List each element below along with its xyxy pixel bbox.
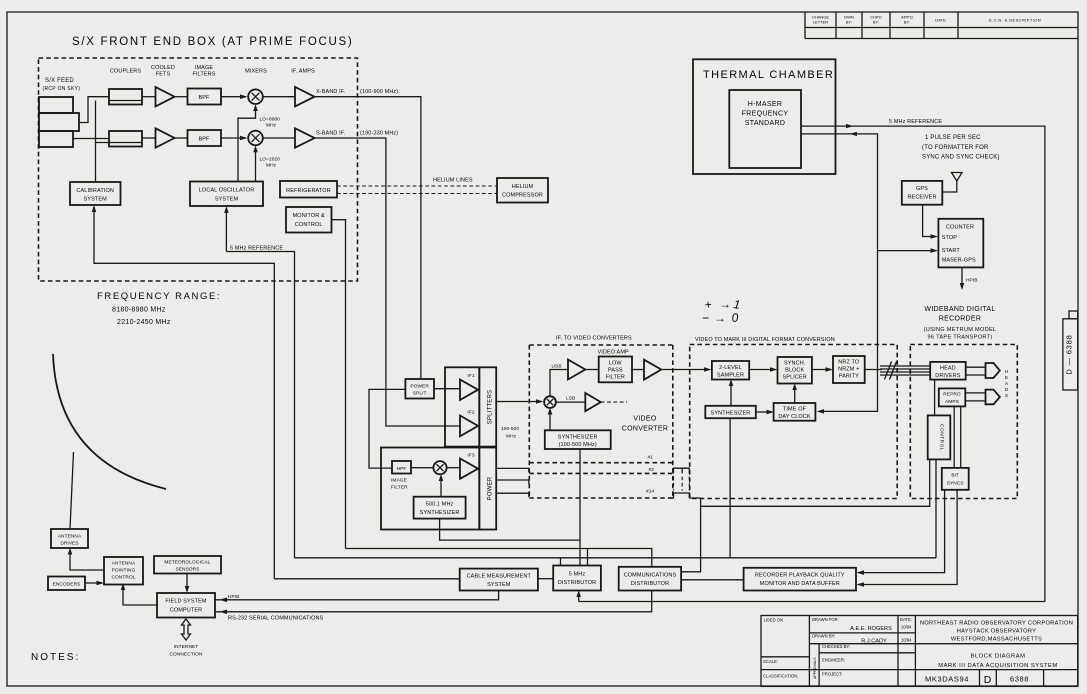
svg-text:BY:: BY: (904, 20, 910, 25)
wire feed to upper coupler (79, 97, 109, 123)
svg-text:100-500: 100-500 (501, 426, 519, 432)
power feed line 2 (496, 480, 529, 484)
wire dish to antenna drives (70, 452, 74, 529)
svg-text:STANDARD: STANDARD (745, 120, 785, 127)
svg-text:IMAGE: IMAGE (391, 478, 407, 484)
LO feed wire to mixer2 (255, 148, 257, 182)
svg-text:LSB: LSB (566, 396, 575, 402)
2-level sampler box (712, 361, 749, 380)
wire 5MHz distributor to maser loop (579, 592, 1045, 602)
svg-text:S/X FEED: S/X FEED (45, 78, 74, 84)
low pass filter box (599, 357, 632, 383)
power column (479, 448, 496, 530)
svg-text:COUNTER: COUNTER (946, 225, 974, 231)
svg-text:IMAGE: IMAGE (195, 65, 214, 71)
svg-text:MK3DAS94: MK3DAS94 (925, 675, 969, 684)
HPF box (392, 461, 411, 474)
power feed line 3 (496, 493, 529, 497)
S/X front end dashed enclosure (39, 58, 358, 281)
wire time of day to splicer (794, 385, 796, 403)
svg-text:RECEIVER: RECEIVER (907, 195, 936, 201)
svg-text:SPLICER: SPLICER (783, 375, 807, 381)
power feed line 1 (496, 468, 529, 472)
svg-text:TIME OF: TIME OF (783, 407, 807, 413)
svg-text:IF1: IF1 (467, 373, 474, 379)
format conversion dashed box (690, 345, 898, 499)
head symbol 2 (986, 390, 1000, 405)
svg-text:S: S (1005, 393, 1008, 399)
svg-text:COUPLERS: COUPLERS (110, 69, 141, 75)
svg-text:BLOCK DIAGRAM: BLOCK DIAGRAM (971, 654, 1026, 660)
wire synthesizer to time of day (756, 411, 772, 413)
BPF box 1 (188, 89, 222, 105)
mixer M1 (248, 89, 263, 104)
mixer M3 (433, 461, 446, 474)
svg-text:CLASSIFICATION:: CLASSIFICATION: (763, 674, 798, 679)
inter-box dashed columns (674, 477, 690, 491)
encoders box (48, 577, 85, 591)
mixer M2 (248, 131, 263, 146)
wire power split left port to HPF (369, 389, 405, 468)
wires heads to repro amps (965, 393, 985, 401)
wire power split to IF1 (434, 388, 460, 390)
svg-text:VIDEO: VIDEO (633, 416, 657, 423)
calibration injection wire to couplers (96, 101, 110, 183)
svg-text:SYSTEM: SYSTEM (215, 197, 239, 203)
svg-text:SYNCS: SYNCS (947, 481, 964, 487)
handwritten annotation plus to 1 (702, 297, 741, 325)
wires repro amps to bit syncs (954, 406, 961, 468)
head drivers box (930, 362, 966, 380)
meteorological sensors box (154, 556, 221, 574)
svg-text:SENSORS: SENSORS (175, 567, 199, 573)
svg-text:SYNTHESIZER: SYNTHESIZER (420, 510, 460, 516)
svg-text:ENCODERS: ENCODERS (53, 582, 81, 588)
svg-text:→: → (714, 311, 726, 325)
revision table headers (812, 15, 1041, 25)
refrigerator box (280, 181, 337, 198)
LSB wire (556, 401, 585, 403)
wire monitor control to comm distributor (332, 220, 346, 549)
IF amp 2 (295, 128, 315, 147)
svg-text:METEOROLOGICAL: METEOROLOGICAL (164, 560, 210, 566)
converter #1 bottom dashed line (529, 462, 673, 464)
wire video out to sampler (661, 369, 709, 371)
LSB amp (585, 393, 601, 411)
wire head drivers to control (934, 380, 936, 416)
wire cable to distributor (538, 578, 553, 580)
S/X feed horn rect 1 (39, 97, 73, 113)
svg-text:FILTER: FILTER (606, 375, 625, 381)
svg-text:DISTRIBUTOR: DISTRIBUTOR (558, 580, 597, 586)
svg-text:−: − (702, 311, 709, 325)
wire control to 5MHz bus (935, 459, 937, 557)
NRZ to NRZM parity box (833, 356, 865, 383)
svg-text:X-BAND IF.: X-BAND IF. (316, 89, 346, 95)
svg-text:VIDEO AMP: VIDEO AMP (598, 350, 630, 356)
svg-text:SAMPLER: SAMPLER (717, 373, 744, 379)
inter-box bridge upper (674, 468, 690, 473)
svg-text:MASER-GPS: MASER-GPS (942, 258, 976, 264)
svg-text:(TO FORMATTER FOR: (TO FORMATTER FOR (922, 145, 989, 151)
title block frame (761, 616, 1078, 687)
helium compressor box (497, 178, 548, 203)
svg-text:LO=2020: LO=2020 (260, 157, 281, 163)
wire bpf1-mixer1 (221, 96, 246, 98)
svg-text:SYNC AND SYNC CHECK): SYNC AND SYNC CHECK) (922, 155, 1000, 161)
cable measurement system box (460, 569, 538, 591)
5 MHz distributor box (553, 566, 601, 591)
svg-text:NRZM +: NRZM + (838, 367, 859, 373)
svg-text:(190-330 MHz): (190-330 MHz) (360, 131, 398, 137)
svg-text:CONNECTION: CONNECTION (169, 652, 203, 658)
wire pointing control to drives (70, 550, 104, 571)
5MHz bus yC wire (295, 557, 937, 559)
svg-text:LETTER: LETTER (813, 20, 828, 25)
svg-text:USED ON: USED ON (764, 618, 783, 623)
svg-text:E.C.N. & DESCRIPTION: E.C.N. & DESCRIPTION (989, 18, 1041, 23)
svg-text:FILTERS: FILTERS (192, 72, 215, 78)
recorder playback quality box (744, 568, 856, 591)
wire mixer2-amp2 (263, 137, 295, 139)
svg-text:MIXERS: MIXERS (245, 69, 267, 75)
svg-text:5 MHz: 5 MHz (569, 572, 586, 578)
svg-text:FREQUENCY: FREQUENCY (742, 111, 789, 118)
synthesizer 100-500 box (545, 430, 611, 449)
svg-text:THERMAL CHAMBER: THERMAL CHAMBER (703, 69, 834, 81)
svg-text:CONTROL: CONTROL (939, 424, 945, 451)
svg-text:(100-900 MHz): (100-900 MHz) (360, 89, 398, 95)
time of day clock box (774, 403, 816, 421)
wire bpf2-mixer2 (221, 137, 246, 139)
svg-text:DRAWN BY:: DRAWN BY: (812, 634, 835, 639)
power split box (405, 379, 434, 399)
svg-text:D: D (1005, 387, 1009, 393)
svg-text:DAY CLOCK: DAY CLOCK (778, 414, 811, 420)
svg-text:USB: USB (552, 364, 562, 370)
RS-232 wire computer to communications distributor (215, 591, 652, 612)
svg-text:#14: #14 (646, 489, 654, 495)
svg-text:HPF: HPF (397, 466, 407, 472)
svg-text:MHz: MHz (266, 163, 277, 169)
IF to video converters dashed box (529, 345, 673, 498)
svg-text:WIDEBAND DIGITAL: WIDEBAND DIGITAL (924, 306, 995, 313)
svg-text:BY:: BY: (873, 20, 879, 25)
5 MHz reference wire maser to right loop (801, 126, 1045, 601)
wire fet2-bpf2 (175, 137, 188, 139)
thermal chamber box (693, 59, 836, 174)
wire mixer1-amp1 (263, 96, 295, 98)
svg-text:10/94: 10/94 (901, 638, 912, 643)
wire encoders to pointing control (85, 582, 101, 584)
svg-text:STOP: STOP (942, 235, 958, 241)
image filter unit box (381, 448, 479, 530)
revision table (805, 12, 1078, 39)
svg-text:E: E (1005, 375, 1008, 381)
wire USB amp to LPF (585, 369, 598, 371)
wire feed to lower coupler (73, 138, 109, 140)
bus yD calibration to cable measurement (274, 578, 459, 580)
wire sampler to splicer (749, 369, 775, 371)
cooled FET amp 1 (156, 87, 175, 106)
wire 5MHz ref to LO system (225, 208, 227, 252)
converter #2 dashed line (529, 472, 673, 474)
synthesizer box (705, 406, 756, 418)
svg-text:FIELD SYSTEM: FIELD SYSTEM (165, 599, 206, 605)
heads label (1005, 369, 1009, 399)
svg-text:6388: 6388 (1010, 675, 1029, 684)
svg-text:ENGINEER:: ENGINEER: (822, 658, 845, 663)
svg-text:HAYSTACK OBSERVATORY: HAYSTACK OBSERVATORY (957, 629, 1037, 635)
svg-text:REPRO: REPRO (943, 392, 961, 398)
svg-text:D: D (984, 674, 992, 686)
S-band IF wire to IF2 splitter (315, 138, 461, 426)
BPF box 2 (188, 130, 222, 146)
control box (928, 415, 951, 459)
repro amps box (939, 388, 966, 406)
head symbol 1 (986, 363, 1000, 378)
svg-text:RECORDER PLAYBACK QUALITY: RECORDER PLAYBACK QUALITY (755, 573, 845, 579)
svg-text:BPF: BPF (198, 95, 210, 101)
svg-text:DRIVES: DRIVES (60, 541, 78, 547)
svg-text:HELIUM: HELIUM (512, 184, 534, 190)
wire synthesizer down to 5MHz bus (729, 418, 731, 558)
1 pps wire maser to time-of-day clock (801, 134, 878, 412)
svg-text:DATE:: DATE: (900, 617, 912, 622)
wire fet1-bpf1 (175, 96, 188, 98)
wire LPF to out amp (632, 369, 644, 371)
splitter output to video converter (496, 401, 541, 403)
svg-text:10/94: 10/94 (901, 625, 912, 630)
svg-text:S-BAND IF.: S-BAND IF. (316, 131, 346, 137)
svg-text:COMMUNICATIONS: COMMUNICATIONS (624, 573, 677, 579)
calibration system box (70, 182, 121, 205)
svg-text:+: + (704, 297, 712, 312)
svg-text:PARITY: PARITY (839, 374, 859, 380)
bundle slashes (885, 362, 897, 380)
svg-text:BY:: BY: (846, 20, 852, 25)
wire comm distributor to playback box (681, 579, 744, 581)
wire bit syncs to playback monitor 1 (858, 490, 945, 573)
svg-text:RECORDER: RECORDER (939, 316, 981, 323)
svg-text:SCALE:: SCALE: (763, 659, 778, 664)
svg-text:LOW: LOW (609, 361, 623, 367)
wire maser line to counter start (878, 250, 937, 252)
svg-text:POWER: POWER (488, 476, 494, 500)
svg-text:IF2: IF2 (467, 410, 474, 416)
LSB dashed stub (601, 401, 627, 403)
svg-text:START: START (942, 248, 961, 254)
wire GPS to counter stop (923, 205, 936, 237)
LO feed wire to mixer1 (238, 106, 256, 182)
svg-text:SYSTEM: SYSTEM (487, 582, 511, 588)
svg-text:SPLITTERS: SPLITTERS (488, 390, 494, 424)
svg-text:1 PULSE PER SEC: 1 PULSE PER SEC (925, 135, 981, 141)
svg-text:FILTER: FILTER (391, 485, 408, 491)
svg-text:CABLE MEASUREMENT: CABLE MEASUREMENT (467, 574, 532, 580)
coupler 2 (109, 131, 142, 147)
wire 500.1 synthesizer to 5MHz bus (440, 519, 580, 541)
svg-text:H-MASER: H-MASER (748, 101, 782, 108)
wire synthesizer down to 5MHz distributor (579, 449, 581, 566)
stub yB to 5MHz distributor (587, 549, 589, 566)
svg-text:IF3: IF3 (467, 453, 474, 459)
svg-text:S/X FRONT END BOX (AT PRIME FO: S/X FRONT END BOX (AT PRIME FOCUS) (72, 36, 353, 48)
svg-text:MONITOR &: MONITOR & (293, 213, 325, 219)
field system computer box (157, 593, 215, 618)
splitters container box (445, 367, 479, 446)
wire bit syncs to playback monitor 2 (858, 490, 957, 585)
svg-text:5 MHz REFERENCE: 5 MHz REFERENCE (230, 246, 283, 252)
cooled FET amp 2 (156, 128, 175, 147)
GPS antenna (952, 173, 963, 182)
svg-text:HEAD: HEAD (940, 366, 956, 372)
svg-text:ANTENNA: ANTENNA (58, 534, 82, 540)
svg-text:8180-8980 MHz: 8180-8980 MHz (112, 307, 166, 314)
wire sensors to field system computer (186, 574, 188, 592)
svg-text:BPF: BPF (198, 137, 210, 143)
wire coupler1-fet1 (142, 96, 156, 98)
wire calibration to cable measurement (94, 207, 274, 579)
X-band IF wire to power split (315, 97, 421, 379)
svg-text:500.1 MHz: 500.1 MHz (426, 502, 454, 508)
svg-text:HPIB: HPIB (966, 278, 978, 284)
svg-text:WESTFORD,MASSACHUSETTS: WESTFORD,MASSACHUSETTS (951, 637, 1042, 643)
svg-text:PASS: PASS (608, 368, 623, 374)
wires head drivers to heads (966, 367, 986, 375)
wire mixer up to USB amp (550, 370, 568, 397)
svg-text:SPLIT: SPLIT (413, 391, 427, 397)
svg-text:D — 6388: D — 6388 (1065, 334, 1074, 374)
video amp out (644, 360, 661, 380)
svg-text:(USING METRUM MODEL: (USING METRUM MODEL (924, 327, 997, 333)
svg-text:COMPUTER: COMPUTER (170, 608, 202, 614)
svg-text:BLOCK: BLOCK (785, 368, 804, 374)
wire synthesizer to mixer M3 (440, 476, 442, 497)
svg-text:CONTROL: CONTROL (295, 222, 323, 228)
wire 5MHz ref run down (226, 252, 294, 558)
svg-text:COMPRESSOR: COMPRESSOR (502, 193, 543, 199)
svg-text:FREQUENCY RANGE:: FREQUENCY RANGE: (97, 291, 221, 302)
head bundle 4 wires (880, 366, 930, 375)
IF amp 1 (295, 87, 315, 106)
svg-text:2-LEVEL: 2-LEVEL (719, 365, 742, 371)
svg-text:FETS: FETS (156, 72, 171, 78)
svg-text:VIDEO TO MARK III DIGITAL FORM: VIDEO TO MARK III DIGITAL FORMAT CONVERS… (695, 337, 835, 343)
USB amp (568, 360, 585, 380)
GPS receiver box (902, 181, 943, 205)
svg-text:NOTES:: NOTES: (31, 652, 80, 663)
svg-text:POWER: POWER (410, 384, 429, 390)
svg-text:RS-232 SERIAL COMMUNICATIONS: RS-232 SERIAL COMMUNICATIONS (228, 616, 324, 622)
svg-text:ANTENNA: ANTENNA (112, 561, 136, 567)
svg-text:(RCP ON SKY): (RCP ON SKY) (43, 86, 81, 92)
wire coupler2-fet2 (142, 137, 156, 139)
svg-text:MONITOR AND DATA BUFFER: MONITOR AND DATA BUFFER (760, 581, 840, 587)
helium dashed lines (337, 186, 497, 194)
svg-text:MARK III DATA ACQUISITION SYST: MARK III DATA ACQUISITION SYSTEM (938, 663, 1058, 669)
svg-text:HPIB: HPIB (228, 594, 240, 600)
splitters column (479, 367, 496, 446)
coupler 1 (109, 89, 142, 105)
NRZ output single wire (865, 369, 882, 371)
H-maser frequency standard box (729, 90, 801, 168)
svg-text:MHz: MHz (506, 434, 517, 440)
svg-text:DRIVERS: DRIVERS (935, 373, 961, 379)
svg-text:CONVERTER: CONVERTER (622, 426, 669, 433)
HPIB wire computer to cable measurement (215, 591, 499, 600)
svg-text:SYNCH.: SYNCH. (784, 361, 806, 367)
svg-text:SYNTHESIZER: SYNTHESIZER (711, 411, 751, 417)
svg-text:CALIBRATION: CALIBRATION (76, 188, 114, 194)
svg-text:HELIUM LINES: HELIUM LINES (433, 178, 473, 184)
wire mixer M3 to IF3 (447, 467, 460, 469)
svg-text:POINTING: POINTING (112, 568, 136, 574)
svg-text:SYSTEM: SYSTEM (84, 197, 108, 203)
svg-text:H: H (1005, 369, 1009, 375)
communications distributor box (619, 567, 681, 591)
inter-box bridge lower (668, 493, 689, 498)
svg-text:NRZ TO: NRZ TO (838, 360, 860, 366)
wire synthesizer to sampler (730, 381, 732, 406)
wire splicer to NRZ (812, 369, 831, 371)
stub bus to 5MHz distributor top (560, 558, 562, 566)
wire control to comm distributor (681, 459, 930, 571)
svg-text:CONTROL: CONTROL (111, 575, 135, 581)
local oscillator system box (190, 182, 263, 207)
wire pointing control to field system computer (123, 585, 157, 606)
wire HPF to mixer M3 (411, 467, 433, 469)
wire synthesizer to mixer M4 (549, 410, 551, 431)
svg-text:2210-2450 MHz: 2210-2450 MHz (117, 319, 171, 326)
svg-text:R.J.CADY: R.J.CADY (861, 639, 887, 645)
svg-text:COOLED: COOLED (151, 65, 175, 71)
svg-text:A.E.E. ROGERS: A.E.E. ROGERS (850, 626, 892, 632)
svg-text:CHECKED BY:: CHECKED BY: (822, 644, 850, 649)
svg-text:#2: #2 (649, 467, 655, 473)
antenna dish arc (53, 354, 166, 489)
svg-text:#1: #1 (648, 455, 654, 461)
monitor and control box (286, 207, 332, 233)
svg-text:SYNTHESIZER: SYNTHESIZER (558, 435, 598, 441)
svg-text:5 MHz REFERENCE: 5 MHz REFERENCE (889, 119, 942, 125)
500.1 MHz synthesizer box (414, 497, 466, 519)
bus yB monitor-control to comm distributor (346, 549, 652, 567)
svg-text:LOCAL OSCILLATOR: LOCAL OSCILLATOR (199, 188, 255, 194)
svg-text:IF. AMPS: IF. AMPS (291, 69, 315, 75)
recorder dashed box (910, 345, 1017, 499)
svg-text:DRAWN FOR:: DRAWN FOR: (812, 617, 839, 622)
svg-text:DATE:: DATE: (935, 18, 946, 23)
svg-text:96 TAPE TRANSPORT): 96 TAPE TRANSPORT) (928, 335, 993, 341)
svg-text:(100-500 MHz): (100-500 MHz) (559, 442, 597, 448)
S/X feed horn rect 3 (39, 131, 73, 147)
bit syncs box (942, 468, 969, 490)
antenna drives box (51, 529, 88, 548)
internet connection double arrow (182, 619, 191, 640)
svg-text:PROJECT:: PROJECT: (822, 672, 842, 677)
D-6388 side tag (1063, 319, 1078, 390)
svg-text:APPROVALS: APPROVALS (813, 657, 817, 679)
svg-text:LO=8080: LO=8080 (260, 117, 281, 123)
svg-text:GPS: GPS (916, 186, 928, 192)
synch block splicer box (778, 357, 812, 384)
svg-text:REFRIGERATOR: REFRIGERATOR (286, 188, 331, 194)
antenna pointing control box (104, 557, 143, 585)
svg-text:NORTHEAST RADIO OBSERVATORY CO: NORTHEAST RADIO OBSERVATORY CORPORATION (920, 621, 1073, 627)
S/X feed horn rect 2 (39, 113, 79, 131)
svg-text:BIT: BIT (951, 473, 959, 479)
